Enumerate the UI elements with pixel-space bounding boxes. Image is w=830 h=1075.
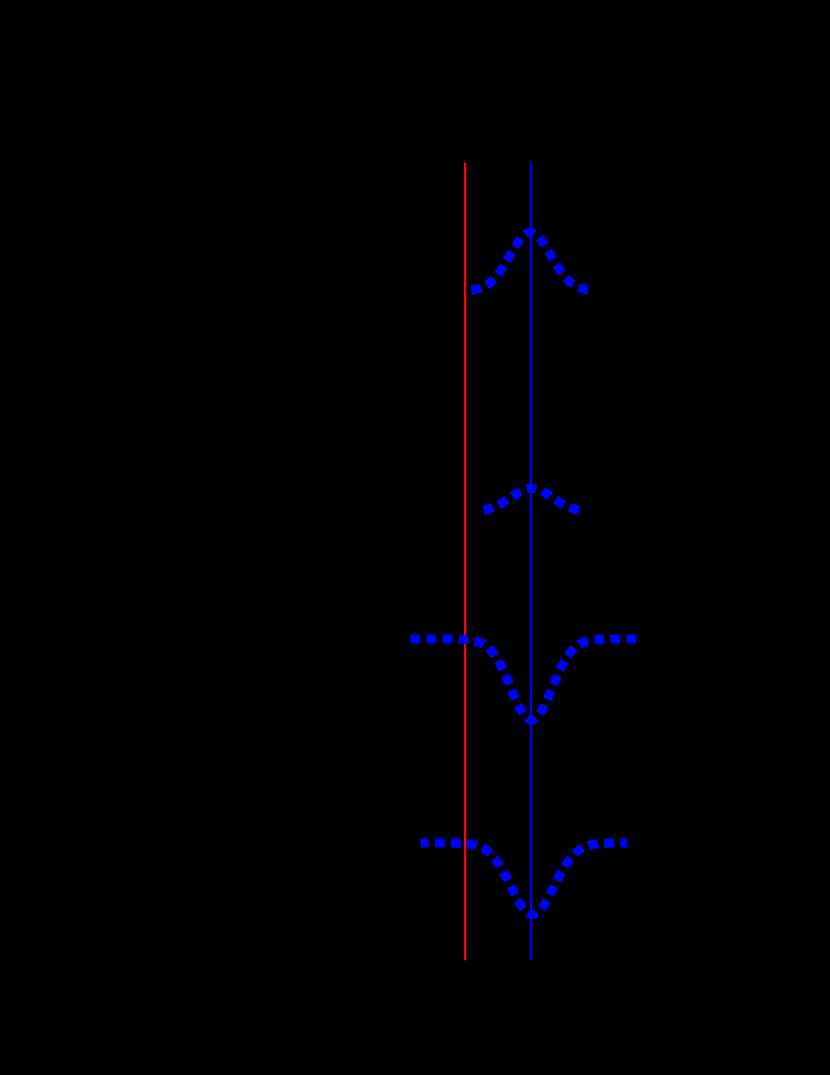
gain peak curve 2 (second): blue dashed curve	[483, 489, 586, 512]
absorption dip curve 3 (third): blue dashed curve	[410, 639, 637, 720]
absorption dip curve 4 (bottom): blue dashed curve	[421, 843, 627, 915]
red vertical line (pump frequency marker)	[464, 163, 466, 961]
gain peak curve 1 (top): blue dashed curve	[469, 233, 594, 291]
blue vertical line (probe frequency marker)	[530, 163, 532, 961]
